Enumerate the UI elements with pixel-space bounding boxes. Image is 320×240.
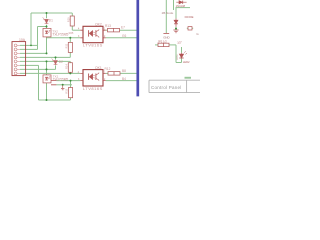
svg-text:E6: E6 xyxy=(122,34,126,38)
svg-text:E7: E7 xyxy=(121,25,125,29)
svg-text:R13: R13 xyxy=(105,24,111,28)
svg-text:1N4148: 1N4148 xyxy=(176,4,186,8)
svg-text:R10: R10 xyxy=(66,17,70,22)
svg-text:OK2: OK2 xyxy=(95,22,102,26)
svg-text:LTV816S: LTV816S xyxy=(83,43,103,48)
svg-text:R25: R25 xyxy=(69,31,74,35)
svg-text:LTV816S: LTV816S xyxy=(83,86,103,91)
svg-text:1/2": 1/2" xyxy=(177,41,182,45)
svg-text:GND: GND xyxy=(163,36,169,40)
svg-text:TxLP2985: TxLP2985 xyxy=(52,33,68,37)
svg-text:2B.Node: 2B.Node xyxy=(162,11,174,15)
svg-text:D2: D2 xyxy=(59,60,63,64)
svg-text:R11: R11 xyxy=(64,43,68,48)
svg-text:LED1: LED1 xyxy=(177,54,179,60)
svg-text:B8: B8 xyxy=(122,69,126,73)
svg-text:JP2 1/2: JP2 1/2 xyxy=(158,40,168,44)
svg-text:10A: 10A xyxy=(19,38,26,42)
svg-text:B4: B4 xyxy=(122,77,126,81)
svg-text:LED2: LED2 xyxy=(183,60,190,64)
svg-text:R15: R15 xyxy=(65,88,69,93)
svg-text:R14: R14 xyxy=(64,64,68,69)
svg-text:D1: D1 xyxy=(49,19,53,23)
svg-text:TxLP2985: TxLP2985 xyxy=(53,78,69,82)
svg-text:Control Panel: Control Panel xyxy=(151,85,182,90)
svg-text:DIODE: DIODE xyxy=(185,15,194,19)
svg-text:OK1: OK1 xyxy=(95,66,102,70)
svg-text:R12: R12 xyxy=(105,67,111,71)
